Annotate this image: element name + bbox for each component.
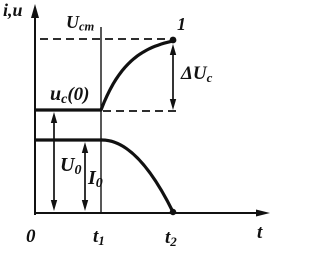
delta Uc dimension arrow — [170, 44, 176, 110]
I0 dimension arrow — [82, 142, 88, 211]
svg-text:1: 1 — [177, 14, 186, 34]
svg-text:uc(0): uc(0) — [50, 83, 90, 107]
uc(0) level line — [35, 108, 101, 111]
dot at t2 — [170, 209, 176, 215]
U0 dimension arrow — [51, 112, 57, 211]
current decay curve — [102, 140, 173, 212]
svg-text:0: 0 — [26, 226, 36, 247]
t1 vertical line — [100, 27, 102, 213]
dashed line Ucm level — [40, 38, 170, 40]
current I0 level line — [35, 138, 102, 141]
svg-text:i,u: i,u — [3, 0, 23, 20]
point 1 dot — [170, 37, 177, 44]
dashed line uc(0) level right of t1 — [103, 110, 178, 112]
x-axis — [34, 210, 270, 217]
svg-text:t: t — [257, 222, 263, 243]
voltage rise curve — [101, 41, 173, 110]
y-axis — [31, 4, 39, 215]
